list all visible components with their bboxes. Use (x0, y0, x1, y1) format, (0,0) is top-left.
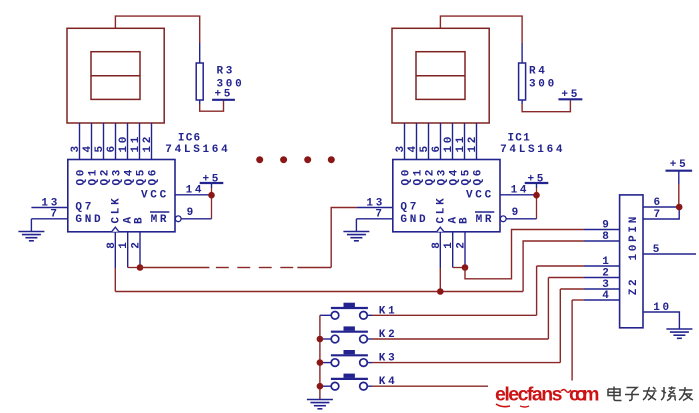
svg-text:+5: +5 (670, 159, 689, 171)
svg-text:6: 6 (654, 197, 663, 209)
svg-text:K4: K4 (379, 376, 398, 388)
svg-text:7: 7 (375, 209, 384, 221)
svg-text:Q2: Q2 (425, 167, 437, 186)
svg-text:12: 12 (142, 134, 154, 153)
svg-text:14: 14 (511, 184, 530, 196)
svg-text:2: 2 (602, 267, 611, 279)
svg-text:2: 2 (456, 239, 468, 248)
svg-text:K3: K3 (379, 353, 398, 365)
svg-text:Q0: Q0 (76, 167, 88, 186)
svg-text:1: 1 (602, 256, 611, 268)
svg-text:300: 300 (529, 79, 557, 91)
svg-text:VCC: VCC (141, 190, 169, 202)
svg-text:5: 5 (653, 244, 662, 256)
svg-text:Q0: Q0 (401, 167, 413, 186)
svg-text:+5: +5 (215, 89, 234, 101)
svg-text:Q4: Q4 (449, 167, 461, 186)
svg-text:IC6: IC6 (178, 133, 201, 145)
svg-text:3: 3 (395, 143, 407, 152)
svg-text:9: 9 (187, 207, 196, 219)
svg-text:K1: K1 (379, 305, 398, 317)
svg-text:1: 1 (118, 239, 130, 248)
svg-text:5: 5 (419, 143, 431, 152)
svg-text:Q6: Q6 (473, 167, 485, 186)
svg-text:9: 9 (512, 207, 521, 219)
svg-text:MR: MR (476, 214, 495, 226)
svg-text:VCC: VCC (466, 190, 494, 202)
svg-text:10: 10 (653, 302, 672, 314)
svg-text:9: 9 (602, 219, 611, 231)
svg-text:Q1: Q1 (88, 167, 100, 186)
svg-text:8: 8 (106, 239, 118, 248)
svg-text:A: A (122, 214, 134, 223)
svg-text:GND: GND (400, 214, 428, 226)
svg-text:5: 5 (94, 143, 106, 152)
svg-text:A: A (447, 214, 459, 223)
svg-text:GND: GND (75, 214, 103, 226)
svg-text:Z2: Z2 (628, 277, 640, 296)
svg-text:4: 4 (82, 143, 94, 152)
svg-text:4: 4 (602, 290, 611, 302)
svg-text:14: 14 (186, 184, 205, 196)
svg-text:IC1: IC1 (508, 133, 531, 145)
svg-text:Q2: Q2 (100, 167, 112, 186)
svg-text:Q1: Q1 (413, 167, 425, 186)
svg-text:7: 7 (654, 209, 663, 221)
svg-text:2: 2 (131, 239, 143, 248)
svg-text:10PIN: 10PIN (628, 214, 640, 261)
svg-text:8: 8 (602, 231, 611, 243)
svg-text:74LS164: 74LS164 (165, 144, 230, 156)
svg-text:+5: +5 (561, 89, 580, 101)
svg-text:11: 11 (455, 134, 467, 153)
svg-text:6: 6 (431, 143, 443, 152)
svg-text:B: B (459, 215, 471, 224)
svg-text:74LS164: 74LS164 (500, 144, 565, 156)
svg-text:Q7: Q7 (75, 202, 94, 214)
svg-text:B: B (134, 215, 146, 224)
svg-text:8: 8 (431, 239, 443, 248)
svg-text:R3: R3 (217, 66, 236, 78)
svg-text:Q7: Q7 (400, 202, 419, 214)
svg-text:11: 11 (130, 134, 142, 153)
svg-text:K2: K2 (379, 329, 398, 341)
svg-text:10: 10 (118, 134, 130, 153)
svg-text:10: 10 (443, 134, 455, 153)
svg-text:6: 6 (106, 143, 118, 152)
svg-text:4: 4 (407, 143, 419, 152)
svg-text:Q3: Q3 (112, 167, 124, 186)
svg-text:com: com (569, 384, 600, 406)
svg-text:1: 1 (443, 239, 455, 248)
svg-text:Q3: Q3 (437, 167, 449, 186)
svg-text:elecfans: elecfans (495, 384, 563, 406)
svg-text:CLK: CLK (110, 196, 122, 224)
svg-text:CLK: CLK (435, 196, 447, 224)
svg-text:Q5: Q5 (461, 167, 473, 186)
svg-text:MR: MR (151, 214, 170, 226)
svg-text:Q6: Q6 (148, 167, 160, 186)
svg-text:3: 3 (70, 143, 82, 152)
svg-text:Q5: Q5 (136, 167, 148, 186)
svg-text:Q4: Q4 (124, 167, 136, 186)
svg-text:7: 7 (50, 209, 59, 221)
svg-text:12: 12 (467, 134, 479, 153)
svg-text:R4: R4 (529, 66, 548, 78)
